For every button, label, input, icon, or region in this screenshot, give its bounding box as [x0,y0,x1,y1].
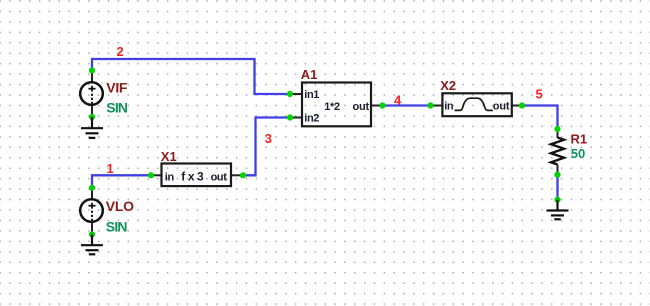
svg-text:out: out [493,101,510,113]
svg-text:in: in [444,100,454,112]
svg-text:3: 3 [265,131,272,146]
svg-text:1: 1 [107,161,114,176]
svg-text:50: 50 [571,146,585,161]
block X2 (bandpass filter) [431,93,523,116]
R1 bottom pin node dot [554,172,560,178]
svg-text:in2: in2 [304,113,319,125]
wire net 5 (X2 out to R1 top) [522,106,558,130]
X1 out pin node dot [240,172,246,178]
svg-text:VIF: VIF [106,80,128,96]
A1 in1 pin node dot [287,91,293,97]
svg-text:R1: R1 [571,131,588,146]
svg-text:out: out [353,101,370,113]
A1 in2 pin node dot [287,114,293,120]
net 0 junction dot above ground [554,197,560,203]
block A1 (mixer 1*2) [290,83,383,127]
ground under VIF [81,117,103,138]
svg-text:VLO: VLO [106,198,134,214]
svg-text:in: in [165,171,175,183]
wire net 2 (VIF plus to A1 in1) [92,59,290,94]
svg-text:5: 5 [536,87,543,102]
svg-text:A1: A1 [301,67,318,82]
svg-text:SIN: SIN [106,219,128,235]
svg-text:2: 2 [117,44,124,59]
svg-text:X1: X1 [161,149,177,164]
svg-text:1*2: 1*2 [324,101,340,113]
VIF bottom pin node dot [89,114,95,120]
wire net 0 (R1 bottom to ground) [556,175,558,200]
R1 top pin node dot [554,126,560,132]
resistor R1 [551,129,564,175]
svg-text:out: out [211,171,228,183]
VIF top pin node dot [89,67,95,73]
A1 out pin node dot [379,102,385,108]
svg-text:SIN: SIN [106,99,128,115]
wire net 3 (X1 out to A1 in2) [243,118,290,176]
X2 in pin node dot [427,102,433,108]
wire net 4 (A1 out to X2 in) [383,104,431,106]
X1 in pin node dot [148,172,154,178]
svg-text:X2: X2 [440,78,456,93]
ground under VLO [81,234,103,254]
VLO top pin node dot [89,185,95,191]
voltage source VIF [80,71,103,118]
wire net 1 (VLO plus to X1 in) [92,175,151,187]
VLO bottom pin node dot [89,231,95,237]
svg-text:f x 3: f x 3 [181,169,204,183]
svg-text:in1: in1 [304,89,319,101]
voltage source VLO [80,188,103,235]
svg-text:4: 4 [394,92,402,107]
block X1 (f x 3 multiplier) [151,164,243,187]
X2 out pin node dot [519,102,525,108]
ground under R1 [547,200,569,220]
